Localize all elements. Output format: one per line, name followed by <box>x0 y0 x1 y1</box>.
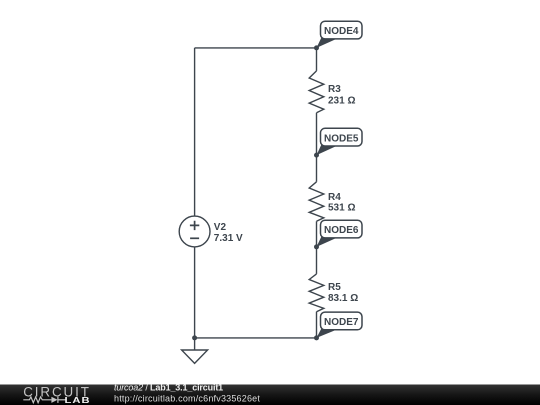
svg-text:http://circuitlab.com/c6nfv335: http://circuitlab.com/c6nfv335626et <box>114 393 260 403</box>
wire top <box>195 47 317 49</box>
junction dot ground <box>192 335 197 340</box>
svg-text:R3: R3 <box>328 84 341 95</box>
svg-text:turcoa2 / Lab1_3.1_circuit1: turcoa2 / Lab1_3.1_circuit1 <box>114 383 223 393</box>
svg-text:LAB: LAB <box>65 396 91 405</box>
label V2 value 7.31 V <box>214 222 243 244</box>
wire left upper <box>194 48 196 216</box>
ground <box>182 338 208 364</box>
svg-text:NODE6: NODE6 <box>324 225 359 236</box>
svg-text:231 Ω: 231 Ω <box>328 95 355 106</box>
svg-text:NODE5: NODE5 <box>324 133 359 144</box>
wire R5 to bottom <box>316 312 318 338</box>
wire R3 to NODE5 <box>316 113 318 182</box>
wire R4 to NODE6 <box>316 221 318 274</box>
svg-text:NODE4: NODE4 <box>324 26 359 37</box>
svg-text:NODE7: NODE7 <box>324 317 359 328</box>
svg-text:R5: R5 <box>328 282 341 293</box>
svg-text:531 Ω: 531 Ω <box>328 203 355 214</box>
wire right upper <box>316 48 318 71</box>
svg-text:7.31 V: 7.31 V <box>214 233 243 244</box>
resistor R3 <box>309 71 355 113</box>
node NODE7 <box>314 312 362 340</box>
wire left lower <box>194 247 196 338</box>
node NODE4 <box>314 21 362 50</box>
bottom bar <box>0 385 540 405</box>
wire bottom <box>195 337 317 339</box>
node NODE5 <box>314 128 362 157</box>
svg-text:V2: V2 <box>214 222 227 233</box>
node NODE6 <box>314 220 362 249</box>
svg-text:R4: R4 <box>328 192 341 203</box>
resistor R4 <box>309 182 355 222</box>
CircuitLab logo <box>23 384 91 405</box>
svg-text:83.1 Ω: 83.1 Ω <box>328 293 358 304</box>
resistor R5 <box>309 274 358 312</box>
voltage source V2 <box>179 216 210 247</box>
